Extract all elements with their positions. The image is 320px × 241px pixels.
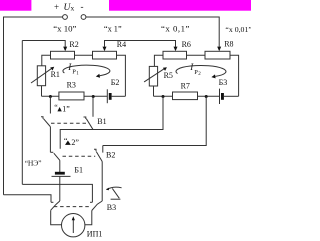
wire R6-R8	[187, 54, 206, 56]
svg-text:ИП1: ИП1	[87, 229, 103, 238]
svg-text:В3: В3	[107, 203, 116, 212]
dashed link V2	[63, 155, 96, 157]
resistor R5 variable	[149, 66, 157, 86]
lever V3	[107, 187, 122, 189]
svg-text:R1: R1	[51, 70, 60, 79]
wire V1 left down	[49, 127, 51, 153]
switch V1 right	[84, 117, 86, 119]
wiper arrow R2	[63, 47, 67, 52]
wiper arrow R4	[103, 47, 107, 52]
svg-text:R3: R3	[67, 81, 76, 90]
svg-text:+: +	[54, 2, 59, 12]
switch V1 left	[41, 117, 43, 119]
svg-text:“x 1”: “x 1”	[104, 24, 122, 33]
battery B2	[106, 89, 108, 103]
svg-text:R8: R8	[224, 40, 233, 49]
wire left rail bottom	[4, 195, 52, 203]
wire R4 right	[117, 55, 126, 96]
svg-text:Б2: Б2	[111, 78, 120, 87]
current loop IP1	[63, 65, 110, 76]
node A dot	[49, 95, 52, 98]
label +Ux-	[54, 2, 84, 14]
svg-text:В2: В2	[106, 151, 115, 160]
svg-text:R4: R4	[117, 40, 126, 49]
resistor R2	[51, 51, 75, 59]
resistor R8	[205, 51, 230, 59]
wire R1 bottom	[41, 86, 43, 97]
svg-text:-: -	[81, 2, 84, 12]
resistor R1 variable	[37, 66, 45, 86]
galvanometer IP1	[61, 214, 84, 237]
wire R5 bottom	[153, 86, 155, 96]
svg-text:“x 0,01”: “x 0,01”	[225, 25, 251, 34]
svg-text:“x 10”: “x 10”	[53, 23, 76, 33]
svg-text:R6: R6	[182, 40, 191, 49]
magenta block top-right	[109, 0, 251, 11]
wire x10 tap	[22, 41, 65, 47]
svg-text:“x 0,1”: “x 0,1”	[161, 24, 190, 34]
wire tap R4-R6	[105, 41, 176, 47]
label arr1	[54, 103, 70, 113]
dashed link V1	[51, 122, 89, 124]
switch G right contact tick	[90, 201, 92, 203]
svg-text:Б1: Б1	[74, 166, 83, 175]
battery B3	[219, 89, 221, 104]
arrow R5	[144, 69, 164, 82]
terminal circle right	[81, 15, 86, 20]
svg-text:“: “	[54, 103, 58, 112]
wire node B down	[92, 96, 94, 116]
magenta block top-left	[0, 0, 31, 11]
arrow R1	[31, 68, 52, 83]
wire IP right	[85, 211, 92, 225]
svg-text:В1: В1	[97, 117, 106, 126]
switch G left contact tick	[51, 201, 53, 203]
wire IP left	[51, 210, 62, 225]
svg-text:x: x	[71, 4, 75, 13]
wire R2 left	[42, 55, 51, 66]
label IP1	[67, 62, 79, 76]
wire battery B2 to right rail	[112, 95, 126, 97]
wire V2 left down to battery	[59, 161, 61, 172]
wire node A down	[49, 96, 51, 113]
switch G right blade	[92, 201, 102, 211]
wire NE rail	[21, 41, 23, 185]
wire battery B1 down	[59, 176, 61, 201]
terminal circle left	[63, 15, 68, 20]
resistor R3	[59, 92, 84, 100]
battery B1	[55, 172, 65, 175]
wire R6 left	[154, 55, 163, 66]
svg-text:R7: R7	[181, 81, 190, 90]
resistor R7	[173, 92, 198, 100]
wiper arrow R8	[217, 47, 221, 52]
wire NE horizontal	[22, 184, 92, 202]
wire bridge1 bottom	[42, 95, 108, 97]
resistor R6	[163, 51, 187, 59]
current loop IP2	[176, 65, 226, 76]
node D dot	[205, 95, 208, 98]
switch V2 right	[94, 149, 96, 151]
svg-text:“НЭ”: “НЭ”	[25, 159, 42, 168]
node C dot	[162, 95, 165, 98]
svg-text:R5: R5	[164, 71, 173, 80]
switch G left blade	[51, 201, 60, 210]
resistor R4	[93, 51, 117, 59]
node B dot	[92, 95, 95, 98]
wire top left segment	[4, 17, 63, 195]
wire V2R down	[101, 162, 103, 202]
wire bridge2 bottom	[154, 95, 220, 97]
svg-text:Б3: Б3	[219, 78, 228, 87]
wire top right segment to R8 wiper	[86, 17, 219, 47]
wire battery B3 to right rail	[224, 95, 239, 97]
svg-text:R2: R2	[69, 40, 78, 49]
wire V2 right contact rail	[103, 96, 206, 145]
wire inner loop top	[60, 96, 163, 148]
label IP2	[189, 62, 201, 77]
svg-text:1”: 1”	[62, 104, 70, 113]
wire R8 right	[230, 55, 239, 96]
label arr2	[64, 136, 80, 146]
wiper arrow R6	[174, 47, 178, 52]
wire R2-R4	[75, 54, 93, 56]
dashed link bottom	[54, 206, 90, 208]
svg-text:2”: 2”	[71, 138, 79, 147]
switch V2 left	[50, 151, 53, 153]
